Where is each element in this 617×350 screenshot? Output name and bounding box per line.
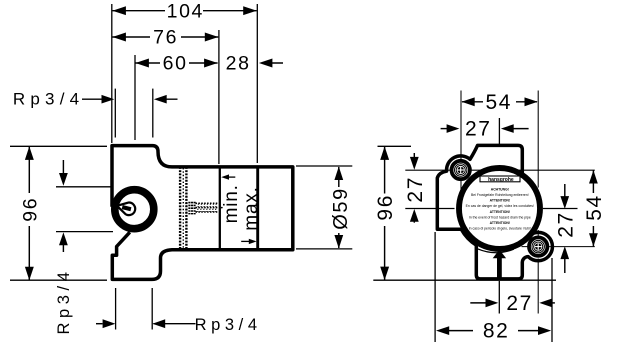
dim 27 bottom xyxy=(470,292,555,315)
svg-text:hansgrohe: hansgrohe xyxy=(488,177,514,183)
dim 104 extension lines xyxy=(111,4,113,143)
svg-text:28: 28 xyxy=(226,53,251,75)
dim 96 right view xyxy=(373,146,556,280)
svg-text:54: 54 xyxy=(583,194,606,221)
svg-text:27: 27 xyxy=(404,176,427,203)
svg-text:Rp3/4: Rp3/4 xyxy=(55,267,73,334)
right view body plate outline with port bosses xyxy=(437,145,552,279)
svg-text:76: 76 xyxy=(153,27,178,49)
flow direction arrow xyxy=(493,250,506,314)
svg-text:82: 82 xyxy=(483,320,510,343)
svg-text:27: 27 xyxy=(506,292,533,315)
dim 54 top xyxy=(462,91,538,114)
dim 96 left extension lines xyxy=(10,145,107,147)
svg-text:54: 54 xyxy=(486,91,513,114)
dim 76 extension line xyxy=(218,30,220,164)
dim 27 right (centre to port) xyxy=(543,184,578,273)
label min. with arrow xyxy=(221,174,242,223)
dim 27 left (port to centre) xyxy=(404,153,454,223)
svg-text:In the event of frost hazard d: In the event of frost hazard drain the p… xyxy=(469,215,531,219)
dim 104 xyxy=(112,0,256,22)
dim 76 xyxy=(112,27,218,49)
sleeve arc below circle xyxy=(478,249,514,253)
dim 96 left xyxy=(19,146,41,280)
hidden screw (dotted) in cylinder xyxy=(187,193,223,228)
svg-text:ATTENTION!: ATTENTION! xyxy=(490,210,510,214)
svg-text:max.: max. xyxy=(241,186,262,230)
central circle (concealed valve sleeve) xyxy=(459,168,540,249)
min position divider line xyxy=(219,167,221,250)
centerline bottom port vertical segments xyxy=(537,91,539,188)
svg-text:ACHTUNG!: ACHTUNG! xyxy=(491,187,509,191)
warning label text xyxy=(466,187,534,230)
svg-text:96: 96 xyxy=(19,197,41,222)
dim 27 top xyxy=(441,118,529,146)
top-left port rings (front view) xyxy=(452,161,470,179)
dim diameter 59 xyxy=(330,167,352,249)
svg-text:96: 96 xyxy=(374,194,397,221)
dim Rp3/4 bottom port xyxy=(96,288,262,334)
centerline top port vertical xyxy=(460,91,462,198)
dim diameter 59 extension lines xyxy=(296,165,352,167)
left view valve body outline (side view) xyxy=(112,146,293,280)
svg-text:In caso di pericolo di gelo, s: In caso di pericolo di gelo, svuotare i … xyxy=(469,227,531,231)
dim 54 right (port centres vertical) xyxy=(583,170,606,246)
svg-text:Ø59: Ø59 xyxy=(330,187,352,230)
svg-text:Bei Frostgefahr Rohrleitung en: Bei Frostgefahr Rohrleitung entleeren! xyxy=(471,193,529,197)
screw detail inside left port xyxy=(115,200,136,217)
centerline bottom port horizontal xyxy=(522,246,595,248)
label max. with arrow xyxy=(241,186,262,244)
svg-text:Rp3/4: Rp3/4 xyxy=(13,90,84,109)
svg-text:27: 27 xyxy=(465,118,492,141)
dim 60 xyxy=(135,53,217,75)
svg-text:27: 27 xyxy=(555,211,578,238)
label Rp3/4 top with leader xyxy=(13,89,178,138)
bottom-right port rings (front view) xyxy=(529,237,547,255)
hansgrohe label box xyxy=(480,176,520,183)
svg-text:60: 60 xyxy=(163,53,188,75)
dim 82 xyxy=(435,232,552,343)
svg-text:En cas de danger de gel, videz: En cas de danger de gel, videz les condu… xyxy=(466,204,534,208)
svg-text:Rp3/4: Rp3/4 xyxy=(195,316,262,334)
left port boss ring (Rp3/4 side port) xyxy=(115,190,154,229)
svg-text:min.: min. xyxy=(221,184,242,223)
dim 28 xyxy=(226,53,283,75)
threaded section hatch (dotted band) xyxy=(180,167,186,250)
dim Rp3/4 left port (rotated) xyxy=(55,160,113,335)
dim 60 extension line xyxy=(134,55,136,140)
centerline top port horizontal xyxy=(405,169,595,171)
max position divider line xyxy=(256,166,259,250)
svg-text:ATTENTION!: ATTENTION! xyxy=(490,221,510,225)
svg-text:ATTENTION!: ATTENTION! xyxy=(490,199,510,203)
svg-text:104: 104 xyxy=(167,0,204,22)
